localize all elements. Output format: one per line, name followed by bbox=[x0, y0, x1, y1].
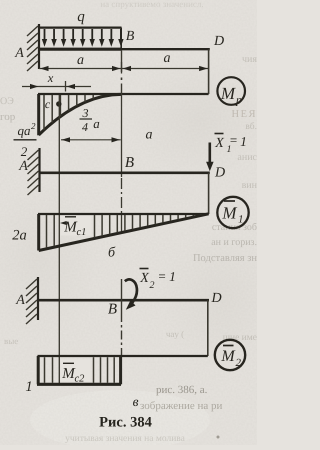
vertical at D connecting beam 3 to M2 baseline bbox=[207, 300, 209, 356]
ghost text top edge bbox=[100, 0, 203, 9]
circled label M2 bbox=[215, 340, 245, 370]
svg-text:2: 2 bbox=[21, 144, 28, 159]
M1 left edge (value 2a at A) bbox=[37, 214, 40, 251]
svg-text:на спруктивемо значенисл.: на спруктивемо значенисл. bbox=[100, 0, 203, 9]
dimension x (A to section c) bbox=[22, 86, 39, 88]
Mp hatching bbox=[43, 95, 45, 130]
svg-text:зображение на ри: зображение на ри bbox=[140, 400, 223, 412]
svg-text:вые: вые bbox=[4, 336, 18, 346]
beam A-B-D (beam 1) bbox=[39, 48, 122, 51]
vertical at D connecting beam 2 to M1 apex bbox=[208, 173, 210, 214]
svg-text:щие име: щие име bbox=[223, 333, 257, 343]
M2 bottom edge (value 1) bbox=[37, 383, 121, 386]
svg-text:чаy (: чаy ( bbox=[166, 329, 184, 339]
svg-text:B: B bbox=[108, 302, 117, 318]
svg-text:1: 1 bbox=[238, 214, 244, 226]
label Mc1 with leader arrow bbox=[60, 221, 67, 225]
M2 diagram baseline A-D bbox=[38, 355, 208, 357]
svg-text:q: q bbox=[77, 9, 85, 25]
svg-text:учитывая значения на молива: учитывая значения на молива bbox=[65, 434, 186, 444]
svg-text:p: p bbox=[235, 95, 242, 107]
circled label M1 bbox=[217, 197, 248, 228]
Mp diagram baseline A-D bbox=[38, 93, 209, 95]
svg-text:2a: 2a bbox=[12, 228, 27, 244]
section line B dash-dot to M2 rectangle bbox=[121, 313, 123, 355]
section line B (dash-dot through figure) bbox=[121, 51, 123, 73]
svg-text:=: = bbox=[230, 133, 237, 148]
svg-text:D: D bbox=[210, 291, 221, 306]
svg-text:в: в bbox=[133, 394, 139, 409]
svg-text:1: 1 bbox=[169, 269, 176, 284]
beam A-D (beam 3) bbox=[38, 299, 209, 302]
dimension a (B to D) bbox=[122, 68, 209, 70]
svg-text:a: a bbox=[146, 128, 153, 143]
svg-text:3: 3 bbox=[82, 106, 89, 120]
svg-text:Рис. 384: Рис. 384 bbox=[99, 415, 152, 431]
svg-text:D: D bbox=[213, 34, 224, 49]
distributed load q top line bbox=[39, 27, 122, 29]
ghost text right column bbox=[166, 54, 258, 343]
svg-text:НЕЯ: НЕЯ bbox=[232, 109, 258, 120]
svg-text:б: б bbox=[108, 246, 116, 261]
svg-text:вб.: вб. bbox=[245, 122, 257, 132]
dimension a (A to B) bbox=[39, 68, 122, 70]
distributed load right edge at B bbox=[120, 28, 122, 48]
ghost text bottom right bbox=[140, 384, 223, 412]
support wall at A (beam 2) bbox=[38, 148, 40, 192]
white window for Mc2 label bbox=[61, 360, 91, 382]
svg-text:A: A bbox=[14, 46, 24, 61]
M2 right edge at B bbox=[119, 356, 122, 384]
support wall at A (beam 1) bbox=[38, 24, 40, 69]
svg-text:ан и гориз.: ан и гориз. bbox=[211, 237, 257, 248]
svg-text:c: c bbox=[45, 97, 51, 111]
circled label Mp bbox=[217, 77, 245, 105]
scan grain texture bbox=[0, 0, 257, 445]
svg-text:A: A bbox=[18, 159, 28, 174]
vertical at D connecting beam 1 to Mp baseline bbox=[208, 49, 210, 94]
svg-text:анис: анис bbox=[237, 152, 257, 163]
svg-text:X: X bbox=[214, 136, 224, 151]
svg-text:M: M bbox=[221, 204, 237, 223]
distributed load arrows bbox=[44, 29, 46, 41]
svg-text:c1: c1 bbox=[77, 227, 87, 238]
unit force X1=1 arrow at D bbox=[209, 143, 212, 164]
svg-text:2: 2 bbox=[236, 357, 242, 369]
svg-text:4: 4 bbox=[82, 120, 88, 134]
svg-text:B: B bbox=[125, 155, 134, 171]
svg-text:a: a bbox=[93, 116, 100, 131]
white window for Mc1 label bbox=[61, 216, 92, 236]
M1 diagram baseline A-D bbox=[38, 213, 209, 215]
svg-text:A: A bbox=[15, 293, 25, 308]
svg-text:x: x bbox=[47, 71, 54, 85]
section line B above beam 3 bbox=[121, 279, 123, 313]
svg-text:рис. 386, а.: рис. 386, а. bbox=[156, 384, 208, 396]
svg-text:c2: c2 bbox=[75, 374, 86, 385]
svg-text:2: 2 bbox=[31, 121, 36, 131]
ghost text bottom edge bbox=[65, 434, 186, 444]
svg-text:=: = bbox=[158, 269, 165, 284]
svg-text:a: a bbox=[77, 53, 84, 68]
M2 hatching bbox=[44, 357, 46, 383]
svg-text:гор: гор bbox=[0, 111, 16, 123]
svg-text:1: 1 bbox=[25, 379, 32, 395]
svg-text:D: D bbox=[214, 166, 225, 181]
paper background bbox=[0, 0, 257, 445]
ghost text left edge bbox=[0, 96, 16, 123]
unit moment X2=1 curved arrow at B bbox=[125, 279, 137, 302]
section line c (thin vertical through all diagrams) bbox=[58, 95, 60, 384]
svg-text:M: M bbox=[220, 348, 236, 365]
dimension 3/4 a (c to B) bbox=[61, 139, 121, 141]
M1 hatching bbox=[46, 215, 48, 248]
svg-text:qa: qa bbox=[18, 123, 32, 138]
centroid dot c of Mp area bbox=[56, 101, 61, 106]
svg-text:вин: вин bbox=[242, 180, 257, 191]
support wall at A (beam 3) bbox=[37, 277, 39, 320]
svg-text:X: X bbox=[139, 271, 149, 286]
svg-text:M: M bbox=[220, 84, 236, 103]
svg-text:2: 2 bbox=[150, 280, 155, 291]
svg-text:a: a bbox=[164, 51, 171, 66]
svg-text:ОЭ: ОЭ bbox=[0, 96, 14, 107]
M2 left edge bbox=[37, 356, 40, 384]
beam A-D (beam 2) bbox=[40, 172, 210, 175]
Mp parabola bbox=[39, 94, 122, 135]
svg-text:чия: чия bbox=[242, 54, 257, 65]
M1 sloped edge (2a at A to 0 at D) bbox=[39, 214, 209, 251]
svg-text:B: B bbox=[126, 29, 135, 44]
Mp left edge (value qa^2/2 at A) bbox=[37, 94, 40, 135]
svg-text:1: 1 bbox=[240, 134, 247, 149]
svg-text:Подставляя зн: Подставляя зн bbox=[193, 253, 257, 264]
